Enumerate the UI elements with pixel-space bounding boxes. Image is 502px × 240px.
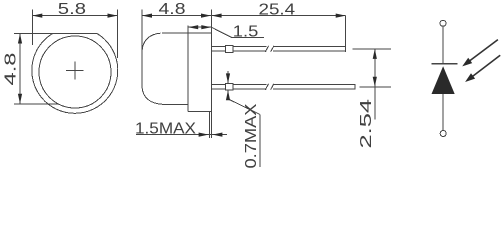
svg-text:4.8: 4.8 bbox=[159, 1, 186, 18]
svg-text:0.7MAX: 0.7MAX bbox=[243, 103, 260, 168]
svg-text:25.4: 25.4 bbox=[259, 2, 296, 19]
svg-text:4.8: 4.8 bbox=[3, 52, 20, 85]
svg-text:1.5MAX: 1.5MAX bbox=[135, 121, 196, 138]
svg-text:5.8: 5.8 bbox=[58, 1, 86, 18]
svg-text:2.54: 2.54 bbox=[358, 99, 375, 149]
svg-text:1.5: 1.5 bbox=[233, 24, 259, 41]
